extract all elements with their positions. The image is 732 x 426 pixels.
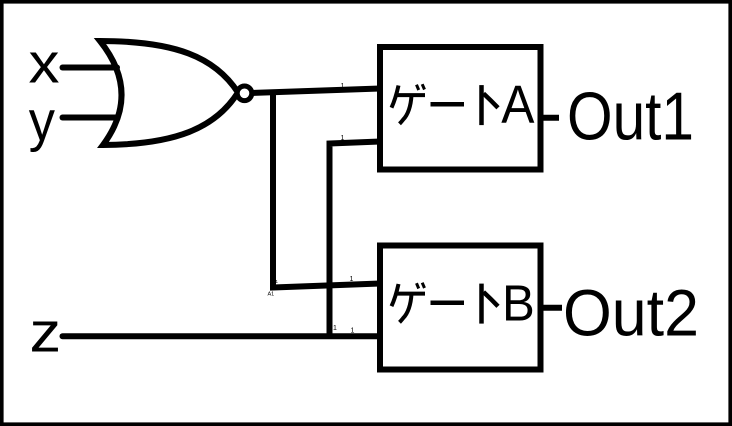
- svg-text:z: z: [30, 301, 62, 365]
- wire NOR output to gate A input 1: [252, 89, 380, 94]
- svg-text:1: 1: [350, 276, 354, 283]
- svg-text:B: B: [502, 275, 535, 332]
- svg-text:x: x: [29, 32, 60, 96]
- wire junction down to gate B input 1: [273, 92, 380, 288]
- wire input y: [63, 115, 118, 121]
- svg-text:A: A: [501, 75, 534, 135]
- svg-text:1: 1: [341, 83, 345, 90]
- gate A box: [380, 47, 541, 170]
- svg-text:A1: A1: [268, 292, 275, 298]
- NOR gate U1 body: [100, 41, 238, 145]
- wire input x: [63, 65, 118, 71]
- svg-text:y: y: [29, 89, 56, 153]
- gate A label ゲートA: [392, 84, 499, 125]
- wire input z: [63, 333, 381, 339]
- svg-text:1: 1: [351, 328, 355, 335]
- gate B output stub: [541, 305, 563, 311]
- wire z up to gate A input 2: [330, 142, 381, 337]
- svg-text:Out1: Out1: [567, 79, 694, 154]
- gate B box: [380, 246, 541, 370]
- NOR gate output bubble: [237, 86, 252, 101]
- svg-text:Out2: Out2: [563, 276, 699, 350]
- gate B label ゲートB: [392, 283, 499, 324]
- gate A output stub: [541, 115, 560, 121]
- svg-text:1: 1: [341, 135, 345, 142]
- svg-text:1: 1: [333, 325, 337, 332]
